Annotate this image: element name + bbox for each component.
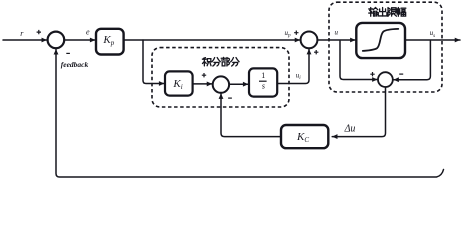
svg-text:u: u	[335, 29, 339, 37]
svg-text:ui: ui	[296, 72, 302, 82]
svg-text:feedback: feedback	[61, 60, 89, 69]
svg-text:Δu: Δu	[344, 124, 356, 135]
svg-text:e: e	[86, 28, 90, 37]
svg-text:us: us	[430, 29, 436, 39]
svg-text:1: 1	[261, 71, 265, 80]
svg-text:up: up	[285, 29, 292, 39]
svg-text:s: s	[262, 82, 265, 91]
svg-text:r: r	[20, 29, 24, 38]
